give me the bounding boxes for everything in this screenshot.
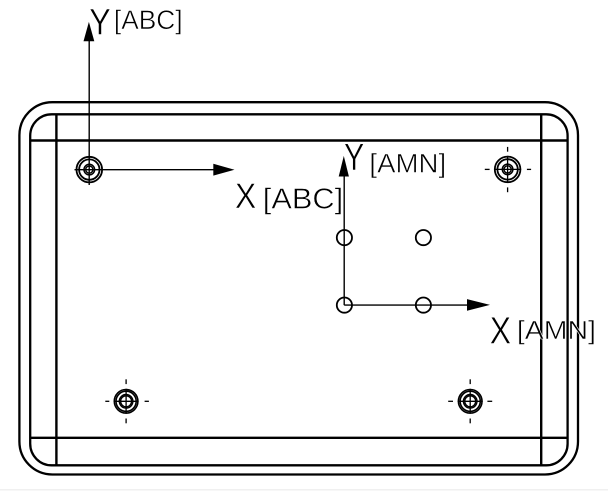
svg-text:[ABC]: [ABC]: [263, 183, 343, 215]
AMN datum circle bottom-right: [416, 298, 431, 313]
svg-text:Y: Y: [89, 0, 111, 42]
AMN datum circle bottom-left (origin): [337, 298, 352, 313]
svg-text:X: X: [490, 311, 511, 353]
ABC Y-axis line: [88, 41, 90, 186]
hole bottom-left circles: [114, 390, 138, 414]
AMN X-axis arrowhead: [467, 299, 490, 311]
svg-text:Y: Y: [344, 136, 364, 179]
plate outer rounded edge: [19, 102, 578, 474]
label X [ABC]: [235, 176, 343, 216]
svg-text:[AMN]: [AMN]: [517, 317, 596, 345]
AMN Y-axis line: [343, 176, 345, 306]
svg-text:[AMN]: [AMN]: [369, 149, 446, 179]
label X [AMN]: [490, 311, 596, 353]
ABC X-axis arrowhead: [213, 164, 234, 176]
hole bottom-right crosshair: [448, 379, 492, 423]
plate inner face bottom edge: [30, 437, 568, 439]
plate second rounded edge: [30, 114, 567, 465]
hole top-right crosshair: [485, 147, 531, 192]
plate inner face top edge: [30, 139, 568, 141]
ABC Y-axis arrowhead: [84, 22, 95, 41]
AMN datum circle top-left: [337, 230, 352, 245]
AMN X-axis line: [344, 304, 468, 306]
hole bottom-left crosshair: [105, 379, 149, 423]
ABC X-axis line: [75, 169, 215, 171]
plate inner face left edge: [55, 114, 57, 465]
hole bottom-right circles: [458, 390, 482, 414]
svg-text:X: X: [235, 176, 256, 216]
plate inner face right edge: [540, 114, 542, 465]
hole top-left circles: [77, 157, 103, 183]
faint bottom separator: [0, 489, 608, 490]
svg-text:[ABC]: [ABC]: [114, 5, 183, 35]
label Y [ABC]: [89, 0, 182, 42]
AMN Y-axis arrowhead: [339, 156, 349, 177]
label Y [AMN]: [344, 136, 446, 179]
hole top-right circles: [495, 157, 521, 183]
AMN datum circle top-right: [416, 230, 431, 245]
